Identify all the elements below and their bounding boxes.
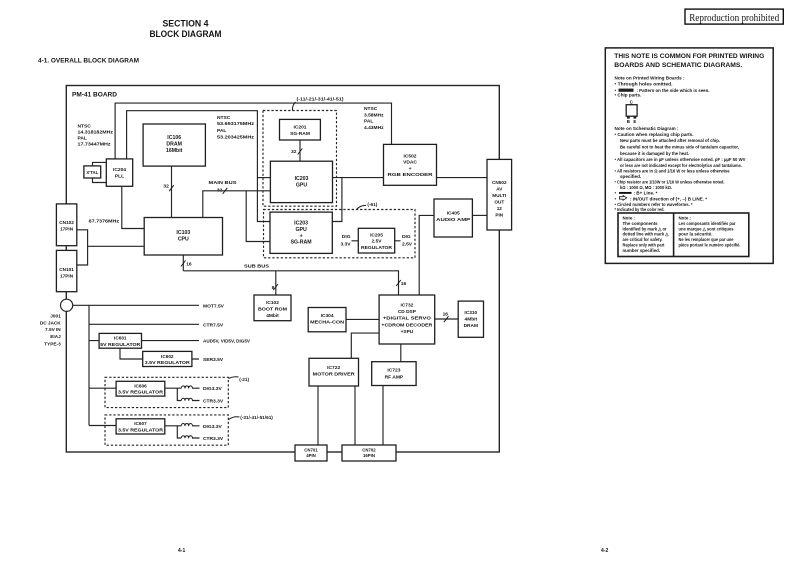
svg-text:4Mbit: 4Mbit [465, 316, 478, 322]
label SER3.5V [203, 357, 224, 363]
svg-text:IC201: IC201 [293, 125, 306, 131]
label SUB BUS [244, 263, 270, 269]
heading 4-1. OVERALL BLOCK DIAGRAM [38, 57, 139, 64]
bus mark 32 (SG-RAM - GPU) [291, 149, 302, 156]
PM-41 board frame [66, 86, 499, 453]
inductor L4 (IC607 CTR3.3V) [181, 436, 192, 439]
bus mark 16 (IC732 - IC310) [443, 311, 449, 322]
svg-text:Note :: Note : [623, 216, 636, 221]
wire PLL clock to VDAC (NTSC 3.58MHz) [115, 103, 391, 159]
wire IC722 to CN702 [354, 386, 356, 445]
wire to IC607 [89, 425, 116, 427]
svg-text:CTR3.3V: CTR3.3V [203, 399, 224, 405]
svg-text:IC502: IC502 [403, 153, 416, 159]
svg-text:IC607: IC607 [134, 421, 147, 426]
svg-text:IC304: IC304 [321, 313, 334, 319]
svg-text:PAL: PAL [78, 136, 87, 142]
wire IC606 outputs [165, 388, 200, 400]
crystal X'TAL [84, 166, 101, 178]
IC304 MECHA-CON [308, 308, 346, 332]
svg-text:kΩ : 1000 Ω, MΩ : 1000 kΩ.: kΩ : 1000 Ω, MΩ : 1000 kΩ. [620, 185, 672, 190]
inductor L3 (IC607 DIG3.3V) [181, 424, 192, 427]
svg-text:BLOCK DIAGRAM: BLOCK DIAGRAM [150, 29, 222, 39]
svg-text:• Caution when replacing chip: • Caution when replacing chip parts. [615, 132, 694, 137]
label DIG3.3V (IC607) [203, 424, 222, 430]
svg-text:BOOT ROM: BOOT ROM [258, 306, 287, 312]
svg-text:MOTOR DRIVER: MOTOR DRIVER [313, 371, 356, 377]
IC607 3.5V regulator [116, 419, 165, 434]
wire IC722 to CN701 [317, 386, 319, 445]
label NTSC 14.318182MHz PAL [78, 124, 114, 148]
wire SUB BUS [183, 271, 398, 295]
svg-text:4.43MHz: 4.43MHz [364, 125, 384, 131]
svg-text:* Indicated by the color red.: * Indicated by the color red. [615, 207, 665, 212]
wire IC732 to IC722 MOTOR DRIVER [351, 333, 379, 358]
IC201 SG-RAM [280, 119, 321, 140]
label NTSC 3.58MHz PAL [364, 106, 384, 131]
svg-text:CTR7.5V: CTR7.5V [203, 322, 224, 328]
svg-text:4-1. OVERALL BLOCK DIAGRAM: 4-1. OVERALL BLOCK DIAGRAM [38, 57, 139, 64]
svg-text:: IN/OUT direction of (+, –) B: : IN/OUT direction of (+, –) B LINE. * [630, 196, 707, 201]
svg-text:Note on Printed Wiring Boards: Note on Printed Wiring Boards : [615, 75, 685, 80]
dashed box (-61) GPU variant [264, 202, 416, 258]
page number 4-2 [601, 548, 608, 554]
IC203 GPU (upper) [270, 161, 332, 202]
svg-text:• Chip parts.: • Chip parts. [615, 92, 642, 97]
svg-text:pièce portant le numéro spécif: pièce portant le numéro spécifié. [679, 243, 741, 248]
svg-text:NTSC: NTSC [364, 106, 378, 112]
svg-text:MAIN BUS: MAIN BUS [209, 180, 238, 186]
svg-text:are critical for safety.: are critical for safety. [623, 237, 663, 242]
svg-text:2.5V: 2.5V [372, 238, 383, 244]
wire GPU to IC502 VDAC [333, 177, 384, 179]
svg-text:53.203425MHz: 53.203425MHz [217, 134, 255, 140]
svg-text:(-11/-21/-31/-41/-51): (-11/-21/-31/-41/-51) [297, 96, 344, 101]
svg-text:IC310: IC310 [464, 310, 477, 316]
wire IC732 to IC310 DRAM [435, 318, 459, 320]
IC722 MOTOR DRIVER [309, 358, 359, 386]
svg-text:3.5V REGULATOR: 3.5V REGULATOR [118, 390, 164, 395]
svg-text:17PIN: 17PIN [60, 274, 74, 279]
svg-text:5V REGULATOR: 5V REGULATOR [100, 342, 141, 347]
svg-text:17.73447MHz: 17.73447MHz [78, 142, 112, 148]
wire IC607 outputs [165, 426, 200, 438]
bus mark 16 (CPU - SUB BUS) [181, 261, 192, 268]
svg-text:New parts must be attached aft: New parts must be attached after removal… [620, 138, 720, 143]
svg-text:+SPU: +SPU [401, 329, 414, 335]
svg-text:(-21): (-21) [239, 377, 249, 382]
svg-text:CN502: CN502 [492, 180, 507, 185]
wire IC304 to IC732 [346, 318, 379, 320]
svg-text:16: 16 [401, 281, 407, 287]
svg-text:Ne les remplacer que par une: Ne les remplacer que par une [679, 237, 734, 242]
wire CN102/CN101 bracket to CPU [77, 230, 144, 265]
dashed box (-21) regulator variant [105, 377, 250, 408]
reproduction prohibited box [685, 9, 783, 24]
svg-text:PM-41 BOARD: PM-41 BOARD [72, 91, 117, 98]
svg-text:TYPE-3: TYPE-3 [44, 342, 61, 347]
CN502 AV MULTI OUT connector [487, 159, 512, 230]
svg-text:IC732: IC732 [400, 303, 413, 309]
svg-text:IC205: IC205 [370, 232, 383, 238]
CN702 connector [342, 445, 396, 461]
IC602 3.5V regulator [143, 351, 192, 366]
svg-text:+CDROM DECODER: +CDROM DECODER [381, 323, 433, 329]
svg-text:IC601: IC601 [114, 336, 127, 341]
svg-text:67.7376MHz: 67.7376MHz [89, 218, 120, 224]
label MAIN BUS 32 [209, 180, 238, 194]
wire PLL clock to GPUs (53MHz) [127, 111, 270, 222]
CN701 connector [295, 445, 327, 461]
label CTR3.3V (IC607) [203, 436, 224, 442]
page number 4-1 [178, 548, 185, 554]
svg-text:IC103: IC103 [176, 230, 190, 236]
svg-text:16PIN: 16PIN [363, 453, 375, 458]
wire CTR7.5V [89, 323, 199, 325]
svg-text:because it is damaged by the h: because it is damaged by the heat. [620, 151, 689, 156]
wire IC201 SG-RAM to GPU [299, 140, 301, 161]
svg-text:OUT: OUT [494, 200, 504, 205]
label CTR3.3V (IC606) [203, 399, 224, 405]
svg-text:RGB ENCODER: RGB ENCODER [388, 172, 434, 178]
svg-text:32: 32 [163, 184, 169, 190]
svg-text:16: 16 [443, 311, 449, 317]
CN101 connector [56, 250, 76, 291]
IC205 2.5V regulator [340, 228, 412, 253]
svg-text:32: 32 [291, 149, 297, 155]
svg-text:or less are not indicated exce: or less are not indicated except for ele… [620, 163, 742, 168]
CN102 connector [56, 204, 76, 246]
svg-text:3.5V REGULATOR: 3.5V REGULATOR [118, 427, 164, 432]
wire lower GPU output branch [332, 178, 342, 222]
svg-text:PAL: PAL [217, 128, 226, 134]
svg-text:3.3V: 3.3V [340, 242, 351, 248]
svg-text:+: + [300, 233, 303, 239]
wire power rail from J001 [73, 305, 199, 425]
svg-text:DC JACK: DC JACK [40, 320, 61, 325]
svg-text:The components: The components [623, 221, 659, 226]
dashed box (-31/-41/-51/61) regulator variant [105, 415, 273, 445]
svg-text:32: 32 [217, 187, 223, 193]
wire IC106 DRAM to CPU [171, 166, 173, 217]
svg-text:14.318182MHz: 14.318182MHz [78, 130, 114, 136]
svg-text:• Chip resistor are 1/10W or 1: • Chip resistor are 1/10W or 1/16 W unle… [615, 179, 725, 184]
svg-text:AV: AV [496, 187, 503, 192]
svg-text:CN702: CN702 [362, 447, 376, 452]
IC310 DRAM [458, 301, 483, 337]
svg-text:GPU: GPU [295, 227, 306, 233]
svg-text:4Mbit: 4Mbit [266, 313, 279, 319]
svg-text:IC204: IC204 [113, 167, 126, 173]
svg-text:IC602: IC602 [161, 354, 174, 359]
svg-text:16Mbit: 16Mbit [166, 148, 183, 154]
svg-text:AUD5V, VID5V, DIG5V: AUD5V, VID5V, DIG5V [203, 339, 251, 345]
svg-text:SECTION 4: SECTION 4 [163, 19, 209, 29]
svg-text:: Pattern on the side which is: : Pattern on the side which is seen. [637, 88, 710, 93]
svg-text:J001: J001 [50, 314, 61, 319]
svg-text:3.58MHz: 3.58MHz [364, 112, 384, 118]
svg-text:16: 16 [186, 261, 192, 267]
svg-text:une marque △ sont critiques: une marque △ sont critiques [679, 226, 735, 231]
dashed box (-11/-21/-31/-41/-51) GPU variant [263, 96, 344, 206]
wire MAIN BUS CPU to GPU [203, 191, 271, 218]
svg-text:SG-RAM: SG-RAM [290, 131, 310, 137]
IC204 PLL [106, 159, 132, 186]
svg-text:CPU: CPU [178, 237, 189, 243]
svg-text:PAL: PAL [364, 119, 373, 125]
bus mark 8 (SUB BUS - BOOT ROM) [272, 284, 278, 291]
svg-text:CN101: CN101 [59, 267, 74, 272]
IC502 VDAC + RGB ENCODER [384, 144, 437, 185]
IC103 CPU [144, 218, 222, 256]
wire SUB BUS to IC102 BOOT ROM [275, 271, 277, 295]
svg-text:DIG: DIG [402, 234, 411, 240]
svg-text:IC203: IC203 [295, 176, 309, 182]
svg-text:+DIGITAL SERVO: +DIGITAL SERVO [383, 316, 431, 322]
svg-text:identified by mark △ or: identified by mark △ or [623, 226, 667, 231]
svg-text:RF AMP: RF AMP [385, 374, 404, 380]
svg-text:AUDIO AMP: AUDIO AMP [436, 217, 471, 223]
svg-text:SER3.5V: SER3.5V [203, 357, 224, 363]
wire IC502 to CN502 [437, 177, 488, 179]
bus mark 32 (DRAM-CPU) [163, 184, 173, 192]
IC102 BOOT ROM [254, 295, 291, 321]
svg-text:pour la sécurité.: pour la sécurité. [679, 232, 713, 237]
svg-text:B: B [627, 119, 630, 124]
svg-text:+: + [409, 167, 412, 172]
crystal bracket wires [93, 162, 107, 182]
svg-text:(-61): (-61) [367, 202, 377, 207]
wire IC732 to IC405 AUDIO AMP [419, 215, 434, 295]
svg-text:Note on Schematic Diagram :: Note on Schematic Diagram : [615, 126, 679, 131]
svg-text:53.693175MHz: 53.693175MHz [217, 121, 255, 127]
svg-text:Replace only with part: Replace only with part [623, 243, 665, 248]
wire IC723 to CN702 [382, 386, 384, 446]
svg-text:GPU: GPU [296, 182, 307, 188]
label NTSC 53.693175MHz PAL [217, 115, 255, 140]
svg-text:• Through holes omitted.: • Through holes omitted. [615, 82, 673, 87]
svg-text:3.5V REGULATOR: 3.5V REGULATOR [145, 360, 191, 365]
svg-text:4-2: 4-2 [601, 548, 608, 554]
svg-text:NTSC: NTSC [217, 115, 231, 121]
IC405 AUDIO AMP [434, 199, 472, 237]
inductor L2 (IC606 CTR3.3V) [181, 398, 192, 401]
svg-text:IC722: IC722 [327, 365, 340, 371]
svg-text:IC405: IC405 [447, 211, 460, 217]
J001 DC jack [40, 299, 73, 346]
svg-text:IC106: IC106 [167, 135, 181, 141]
svg-text:2.5V: 2.5V [402, 242, 413, 248]
svg-text:• All resistors are in Ω and 1: • All resistors are in Ω and 1/16 W or l… [615, 168, 730, 173]
svg-text:: B+ Line. *: : B+ Line. * [634, 191, 658, 196]
wire GPU clock branch to upper GPU [257, 177, 270, 179]
svg-text:CD DSP: CD DSP [398, 309, 417, 315]
label CTR7.5V [203, 322, 224, 328]
wire to IC606 [89, 387, 116, 389]
svg-text:PLL: PLL [115, 174, 124, 180]
svg-text:IC723: IC723 [387, 368, 400, 374]
svg-text:CN102: CN102 [59, 220, 74, 225]
svg-text:dotted line with mark △: dotted line with mark △ [623, 232, 670, 237]
note schematic text [615, 126, 747, 212]
svg-text:MECHA-CON: MECHA-CON [310, 320, 345, 326]
svg-text:Reproduction prohibited: Reproduction prohibited [689, 13, 780, 24]
IC601 5V regulator [99, 333, 141, 348]
wire IC601 to IC602 and SER3.5V out [120, 348, 199, 359]
svg-text:Note :: Note : [679, 216, 692, 221]
svg-text:• All capacitors are in µF unl: • All capacitors are in µF unless otherw… [615, 157, 747, 162]
svg-text:MOT7.5V: MOT7.5V [203, 303, 225, 309]
label MOT7.5V [203, 303, 225, 309]
svg-text:MULTI: MULTI [492, 193, 506, 198]
label DIG3.3V (IC606) [203, 386, 222, 392]
svg-text:4PIN: 4PIN [306, 453, 316, 458]
wire to IC601 and AUD5V out [89, 340, 199, 342]
svg-text:number specified.: number specified. [623, 248, 661, 253]
svg-text:SG-RAM: SG-RAM [291, 240, 312, 246]
svg-text:Les composants identifiés par: Les composants identifiés par [679, 221, 736, 226]
safety note boxes [618, 213, 749, 257]
svg-text:12: 12 [497, 206, 503, 211]
bus mark 16 (SUB BUS - IC732) [396, 280, 406, 287]
wire MAIN BUS branch to lower GPU [246, 191, 270, 242]
IC723 RF AMP [372, 362, 416, 386]
svg-text:BOARDS AND SCHEMATIC DIAGRAMS.: BOARDS AND SCHEMATIC DIAGRAMS. [614, 62, 742, 69]
svg-text:REGULATOR: REGULATOR [361, 245, 393, 251]
svg-text:DRAM: DRAM [166, 142, 182, 148]
wire PLL to CPU (67.7376MHz) [122, 186, 144, 228]
wire CPU to SUB BUS [182, 255, 184, 271]
svg-text:PIN: PIN [495, 213, 503, 218]
label 67.7376MHz [89, 218, 120, 224]
svg-text:SUB BUS: SUB BUS [244, 263, 270, 269]
svg-text:CTR3.3V: CTR3.3V [203, 436, 224, 442]
svg-text:DIG: DIG [342, 234, 351, 240]
svg-text:VDAC: VDAC [403, 160, 417, 166]
svg-text:DIG3.3V: DIG3.3V [203, 424, 222, 430]
svg-text:(-31/-41/-51/61): (-31/-41/-51/61) [240, 415, 273, 420]
svg-text:CN701: CN701 [304, 447, 318, 452]
inductor L1 (IC606 DIG3.3V) [181, 386, 192, 389]
svg-text:8: 8 [272, 285, 275, 291]
chip part icon [626, 100, 637, 125]
wire IC405 to CN502 [472, 214, 487, 216]
wire IC732 to IC723 RF AMP [400, 344, 402, 362]
svg-text:IC102: IC102 [266, 300, 279, 306]
svg-text:NTSC: NTSC [78, 124, 92, 130]
svg-text:specified.: specified. [620, 174, 641, 179]
label AUD5V VID5V DIG5V [203, 339, 251, 345]
svg-text:X'TAL: X'TAL [86, 170, 98, 175]
svg-text:IC203: IC203 [294, 221, 308, 227]
IC606 3.5V regulator [116, 381, 165, 396]
svg-text:Be careful not to heat the min: Be careful not to heat the minus side of… [620, 145, 739, 150]
svg-text:EIAJ: EIAJ [50, 334, 61, 339]
svg-text:7.5V IN: 7.5V IN [45, 327, 61, 332]
svg-text:DRAM: DRAM [464, 323, 478, 329]
page title SECTION 4 / BLOCK DIAGRAM [150, 19, 222, 39]
IC732 CD DSP [379, 295, 435, 344]
IC106 DRAM [143, 124, 205, 166]
svg-text:DIG3.3V: DIG3.3V [203, 386, 222, 392]
svg-text:17PIN: 17PIN [60, 227, 74, 232]
svg-text:E: E [633, 119, 636, 124]
svg-text:THIS NOTE IS COMMON FOR PRINTE: THIS NOTE IS COMMON FOR PRINTED WIRING [614, 53, 764, 60]
note panel [605, 48, 773, 264]
IC203 GPU + SG-RAM (lower) [270, 212, 332, 253]
svg-text:IC606: IC606 [134, 384, 147, 389]
svg-text:4-1: 4-1 [178, 548, 185, 554]
